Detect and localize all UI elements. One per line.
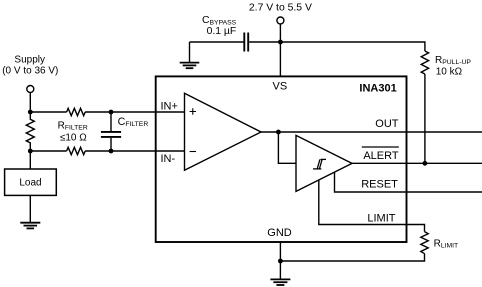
resistor RFILTER top xyxy=(67,108,86,115)
svg-text:RPULL-UP: RPULL-UP xyxy=(435,55,471,66)
pin label OUT xyxy=(375,118,399,130)
wire GND node ground stub xyxy=(279,261,281,279)
svg-text:RLIMIT: RLIMIT xyxy=(434,238,459,249)
svg-text:LIMIT: LIMIT xyxy=(367,213,395,225)
comparator U2 xyxy=(296,135,352,191)
resistor RFILTER bottom xyxy=(67,147,86,154)
hysteresis symbol xyxy=(313,159,326,169)
junction GND node xyxy=(278,259,283,264)
wire GND pin to ground node xyxy=(279,242,281,261)
svg-text:ALERT: ALERT xyxy=(363,150,399,162)
wire top rail left segment xyxy=(30,111,66,113)
svg-text:CFILTER: CFILTER xyxy=(118,116,149,128)
svg-text:RESET: RESET xyxy=(361,179,398,191)
junction top rail at supply xyxy=(28,110,33,115)
label CFILTER xyxy=(118,116,149,128)
wire LIMIT xyxy=(319,180,425,232)
pin label ALERT (with overline) xyxy=(363,150,399,162)
supply input terminal xyxy=(27,86,34,93)
capacitor CBYPASS xyxy=(244,33,248,52)
svg-text:RFILTER: RFILTER xyxy=(58,120,88,131)
svg-text:GND: GND xyxy=(267,227,292,239)
junction op-amp output xyxy=(276,130,281,135)
svg-text:Load: Load xyxy=(19,177,41,188)
resistor RLIMIT xyxy=(421,232,428,254)
INA301 box xyxy=(156,76,407,242)
pin label LIMIT xyxy=(367,213,395,225)
junction CFILTER top xyxy=(109,110,114,115)
pin label VS xyxy=(273,81,288,93)
svg-text:2.7 V to 5.5 V: 2.7 V to 5.5 V xyxy=(249,2,312,13)
svg-text:10 kΩ: 10 kΩ xyxy=(436,66,463,77)
wire bypass rail right segment to pull-up corner xyxy=(249,42,425,51)
wire supply terminal to top rail xyxy=(29,93,31,113)
op-amp minus input marker xyxy=(190,151,196,153)
wire ALERT xyxy=(352,162,482,164)
capacitor CFILTER xyxy=(101,112,121,151)
wire VS node to VS pin xyxy=(279,42,281,76)
wire top rail to op-amp IN+ xyxy=(85,111,185,113)
wire op-amp output / OUT xyxy=(261,131,482,133)
label CBYPASS xyxy=(202,15,237,37)
wire bottom rail to op-amp IN- xyxy=(85,150,185,152)
wire RESET xyxy=(335,172,482,192)
ground (bypass) xyxy=(180,63,200,69)
svg-text:≤10 Ω: ≤10 Ω xyxy=(60,133,87,144)
wire Load to ground xyxy=(29,195,31,222)
svg-text:(0 V to 36 V): (0 V to 36 V) xyxy=(2,66,58,77)
label RPULL-UP 10 kOhm xyxy=(435,55,471,78)
svg-text:0.1 µF: 0.1 µF xyxy=(207,26,237,37)
wire pull-up to ALERT xyxy=(424,74,426,163)
VS supply terminal xyxy=(277,17,284,24)
svg-text:VS: VS xyxy=(273,81,288,93)
wire VS terminal down to bypass rail xyxy=(279,24,281,42)
wire bypass ground stub xyxy=(189,42,191,63)
junction VS node xyxy=(278,40,283,45)
junction bottom rail at supply xyxy=(28,149,33,154)
wire bypass rail left segment xyxy=(190,41,244,43)
junction CFILTER bottom xyxy=(109,149,114,154)
pin label IN+ xyxy=(161,100,178,112)
svg-text:INA301: INA301 xyxy=(359,83,396,95)
wire bottom rail left segment xyxy=(30,150,66,152)
pin label GND xyxy=(267,227,292,239)
Load block xyxy=(5,169,57,195)
wire bottom rail junction to Load xyxy=(29,151,31,169)
ALERT overline xyxy=(362,146,399,148)
node 2.7 V to 5.5 V label xyxy=(249,2,312,13)
wire op-amp output to comparator input xyxy=(278,132,296,163)
label RLIMIT xyxy=(434,238,459,249)
label RFILTER xyxy=(58,120,88,143)
svg-text:IN-: IN- xyxy=(161,153,176,165)
ground (load) xyxy=(20,223,40,229)
op-amp plus input marker xyxy=(190,108,196,114)
node Supply label xyxy=(2,55,58,77)
op-amp U1 xyxy=(185,93,262,170)
label INA301 xyxy=(359,83,396,95)
resistor RPULL-UP xyxy=(421,51,428,74)
svg-text:IN+: IN+ xyxy=(161,100,178,112)
svg-text:CBYPASS: CBYPASS xyxy=(202,15,237,26)
pin label IN- xyxy=(161,153,176,165)
shunt resistor xyxy=(26,112,34,151)
wire RLIMIT bottom to GND node xyxy=(280,254,424,261)
svg-text:OUT: OUT xyxy=(375,118,399,130)
ground (GND pin) xyxy=(270,279,290,285)
svg-text:Supply: Supply xyxy=(14,55,45,66)
pin label RESET xyxy=(361,179,398,191)
junction ALERT pull-up xyxy=(423,161,428,166)
